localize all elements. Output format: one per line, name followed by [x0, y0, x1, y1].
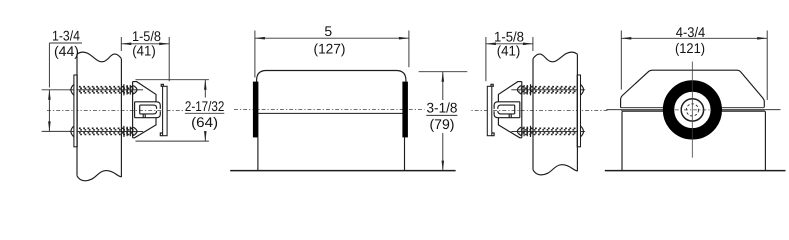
ground line view4: [605, 170, 786, 172]
svg-text:(41): (41): [497, 43, 521, 59]
vertical centerline: [691, 62, 693, 158]
view3 pipe left edge lower stub: [532, 162, 534, 170]
dim 5 line: [255, 37, 409, 39]
base top edge: [622, 110, 765, 112]
svg-text:(121): (121): [675, 40, 705, 56]
view3 pipe bottom break line: [533, 165, 577, 175]
dim 1-3/4 vertical with arrows: [48, 43, 50, 88]
svg-text:(127): (127): [314, 41, 346, 57]
dim 1-3/4 leader underline: [49, 42, 82, 44]
dim 2-17/32 fraction bar: [185, 112, 224, 114]
svg-text:(44): (44): [54, 43, 79, 59]
dim 1-5/8 (view1) extension lines: [120, 37, 122, 51]
roller barrel outline: [257, 71, 406, 138]
left end cap: [253, 82, 259, 138]
view3 pipe right edge lower stub: [576, 162, 578, 171]
dim 2-17/32 tick bottom: [136, 140, 209, 142]
svg-text:(79): (79): [430, 116, 455, 132]
svg-text:3-1/8: 3-1/8: [427, 100, 458, 116]
shaft hidden circle: [686, 104, 698, 116]
roller tire ring: [669, 86, 717, 134]
dim 5 extension lines: [254, 31, 256, 78]
base right edge: [764, 111, 766, 170]
hub circle: [681, 99, 703, 121]
mirrored bracket assembly: [471, 52, 608, 181]
right end cap: [402, 82, 408, 138]
dim 1-3/4 extension ticks to rods: [42, 89, 72, 91]
track rail line: [606, 109, 780, 111]
dim 1-5/8 (view1) line: [121, 43, 169, 45]
dim 3-1/8 fraction bar: [426, 114, 457, 116]
svg-text:2-17/32: 2-17/32: [185, 98, 225, 114]
trapezoid housing: [621, 70, 765, 107]
frame side left: [257, 137, 259, 170]
dim 1-5/8 (view3) line: [486, 43, 533, 45]
base left edge: [621, 111, 623, 170]
dim 4-3/4 line: [621, 37, 767, 39]
view3 pipe bottom correction mask: [531, 163, 580, 187]
frame side right: [404, 137, 406, 170]
dim 4-3/4 extension lines: [620, 31, 622, 90]
svg-text:4-3/4: 4-3/4: [676, 24, 706, 40]
track rail lower line: [621, 110, 765, 112]
svg-text:1-3/4: 1-3/4: [52, 27, 80, 43]
svg-text:5: 5: [324, 23, 332, 39]
dim 2-17/32 vertical segments with arrows: [204, 80, 206, 98]
svg-text:(64): (64): [191, 114, 218, 130]
housing bottom face: [621, 107, 765, 109]
dim 3-1/8 vertical segments: [442, 72, 444, 100]
dim 1-5/8 (view3) extension lines: [485, 37, 487, 81]
dim 2-17/32 tick top: [136, 79, 209, 81]
ground line view2: [230, 170, 455, 172]
roller centerline: [234, 109, 425, 111]
roller axle line: [258, 112, 402, 114]
dim 3-1/8 top tick: [419, 71, 468, 73]
centerline across hub: [675, 109, 710, 111]
svg-text:(41): (41): [132, 43, 156, 59]
